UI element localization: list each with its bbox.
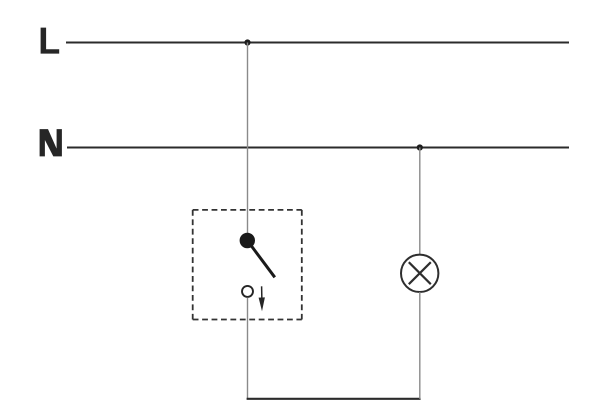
label L (line net) <box>41 28 60 54</box>
wire from switch to bottom <box>247 298 249 399</box>
lamp E1 cross stroke 1 <box>409 262 431 284</box>
switch enclosure dashed box right edge <box>301 210 303 320</box>
junction dot on L <box>244 39 250 45</box>
switch enclosure dashed box top edge <box>193 209 302 211</box>
switch S1 open contact <box>242 286 253 297</box>
wire from lamp to bottom <box>419 292 421 399</box>
label N (neutral net) <box>40 129 62 156</box>
switch actuation arrow head <box>259 297 265 311</box>
switch S1 pivot contact <box>240 233 255 248</box>
wire from L to switch <box>247 43 249 234</box>
switch actuation arrow shaft <box>261 286 263 301</box>
lamp E1 cross stroke 2 <box>409 262 431 284</box>
switch S1 lever <box>247 241 274 278</box>
switch enclosure dashed box bottom edge <box>193 319 302 321</box>
switch enclosure dashed box left edge <box>192 210 194 320</box>
wire L rail <box>66 42 569 44</box>
wire bottom return <box>247 398 421 400</box>
junction dot on N <box>417 144 423 150</box>
lamp E1 body <box>401 255 438 292</box>
wire N rail <box>67 147 569 149</box>
wire from N to lamp <box>419 148 421 256</box>
